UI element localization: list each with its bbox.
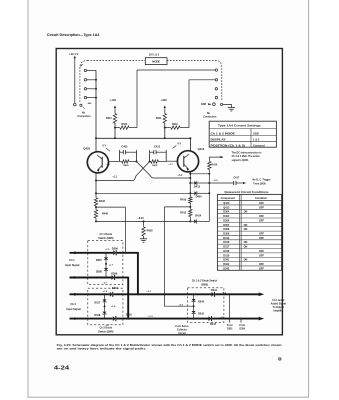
svg-text:D343: D343 — [223, 267, 230, 270]
wire cross-coupling to Q413 emitter rail — [137, 162, 191, 179]
svg-text:Centered: Centered — [253, 143, 265, 147]
transistor Q403 — [87, 152, 108, 173]
svg-text:Circuit Description—Type 1A4: Circuit Description—Type 1A4 — [47, 33, 100, 37]
svg-text:Quiescent Circuit Conditions: Quiescent Circuit Conditions — [224, 190, 268, 194]
svg-text:0 V: 0 V — [103, 145, 107, 148]
svg-text:+140: +140 — [110, 98, 117, 102]
svg-text:R440: R440 — [102, 213, 109, 216]
svg-text:OFF: OFF — [259, 219, 264, 222]
wire R410 to switch contact 2 — [188, 80, 190, 128]
switch linkage dashed (middle) — [88, 60, 146, 62]
wire drop to D359 — [240, 318, 242, 320]
resistor R412 — [150, 161, 151, 163]
node D317 top tee — [104, 293, 106, 295]
output arrow upper — [259, 293, 265, 297]
svg-text:No: No — [207, 112, 211, 115]
diode D343 — [193, 294, 195, 299]
node R442-R440 junction — [95, 206, 97, 208]
wire R414 bus vertical — [208, 170, 210, 222]
svg-text:R416: R416 — [180, 199, 187, 202]
node Ch1 upper joins Ch2 upper — [137, 293, 139, 295]
wire collector rail — [96, 137, 190, 139]
svg-text:R415: R415 — [180, 211, 187, 214]
node D343 top tee — [193, 293, 195, 295]
svg-text:−0.2: −0.2 — [213, 180, 218, 182]
wire bias drop to Ch1 diode gate — [124, 207, 126, 253]
wire Ch1 lower signal line — [70, 277, 112, 279]
svg-text:Q403: Q403 — [223, 202, 230, 205]
diode D308 — [104, 268, 108, 271]
svg-text:Input Signal: Input Signal — [66, 308, 81, 311]
svg-text:ADD: ADD — [253, 131, 259, 135]
wire emitter tie rail — [96, 192, 190, 194]
diode D342 — [192, 311, 196, 314]
switch linkage dashed (right) — [167, 61, 222, 101]
svg-text:Added Signal: Added Signal — [271, 302, 287, 305]
wire switch bus to Q403 collector — [95, 70, 97, 151]
svg-text:+12.1 V: +12.1 V — [69, 52, 79, 56]
wire right contact 2 to R410 — [189, 79, 215, 81]
svg-text:Type 1A4 Control Settings: Type 1A4 Control Settings — [218, 123, 261, 127]
svg-text:Ch 1: Ch 1 — [69, 259, 75, 262]
svg-text:OFF: OFF — [259, 267, 264, 270]
resistor R440 — [94, 210, 97, 218]
svg-text:D309: D309 — [223, 232, 230, 235]
wire wiper to ground — [223, 104, 232, 107]
svg-text:+7.3: +7.3 — [148, 316, 153, 318]
Ch1 gate dashed box — [88, 241, 123, 285]
svg-text:D341: D341 — [211, 289, 218, 292]
svg-text:D318: D318 — [223, 250, 230, 253]
svg-text:+7.5: +7.5 — [105, 249, 110, 251]
svg-text:D317: D317 — [94, 301, 101, 304]
node D343-D342 midpoint +7.5 — [193, 302, 195, 311]
svg-text:D341: D341 — [223, 259, 230, 262]
registration mark — [278, 357, 281, 360]
svg-text:From Series: From Series — [175, 326, 189, 328]
svg-text:0 V: 0 V — [178, 142, 182, 145]
transistor Q413 — [177, 151, 198, 172]
switch SW400A wiper contact — [74, 103, 77, 106]
svg-text:OFF: OFF — [259, 215, 264, 218]
schematic border frame — [56, 49, 282, 335]
wire contact leads left — [87, 69, 96, 71]
label Ch 1 Diode Switch — [94, 232, 118, 240]
svg-text:Switch (SW6): Switch (SW6) — [98, 237, 113, 240]
resistor R421 — [113, 113, 116, 123]
wire trigger takeoff to C417 — [209, 182, 233, 184]
wire Ch2 upper signal line — [70, 293, 110, 295]
wire Ch2 lower signal line — [70, 318, 113, 320]
switch SW400B wiper contact — [213, 103, 216, 106]
resistor R414 — [208, 161, 211, 169]
wire Q413 base — [166, 160, 177, 162]
wire Ch1 lower drop to Ch2 line — [127, 277, 129, 319]
node D317-D318 midpoint — [104, 302, 106, 311]
svg-text:Component: Component — [221, 196, 236, 200]
svg-text:Q413: Q413 — [223, 206, 230, 209]
wire junction rail to series collector feed — [164, 206, 190, 208]
svg-text:Ch 2: Ch 2 — [70, 303, 76, 306]
svg-text:From: From — [239, 325, 245, 327]
node -8.94 rail right junction — [189, 220, 191, 222]
svg-text:OFF: OFF — [259, 237, 264, 240]
svg-text:ON: ON — [244, 228, 248, 231]
svg-text:OFF: OFF — [259, 263, 264, 266]
svg-text:D318: D318 — [94, 314, 101, 317]
svg-text:D306: D306 — [223, 219, 230, 222]
wire R414 to Ch3and4 takeoff — [209, 157, 220, 161]
svg-text:D404: D404 — [196, 195, 203, 198]
svg-text:D413: D413 — [194, 186, 201, 189]
node -8.94 rail left junction — [95, 220, 97, 222]
svg-text:R410: R410 — [172, 123, 178, 126]
switch contacts right bank — [215, 69, 217, 71]
svg-text:Ch 1 & 2 MODE: Ch 1 & 2 MODE — [211, 131, 236, 135]
svg-text:ON: ON — [244, 259, 248, 262]
svg-text:1 & 2: 1 & 2 — [253, 137, 260, 141]
svg-text:R402: R402 — [123, 164, 129, 167]
svg-text:+300: +300 — [161, 98, 168, 102]
wire Ch1 upper signal line — [70, 252, 114, 254]
svg-text:POSITION (Ch 1 & 2): POSITION (Ch 1 & 2) — [211, 143, 246, 147]
diode D307 — [105, 253, 107, 257]
svg-text:To Output: To Output — [273, 306, 284, 309]
wire drop to D351 — [229, 293, 231, 295]
svg-text:OFF: OFF — [259, 206, 264, 209]
svg-text:Condition: Condition — [255, 196, 268, 200]
svg-text:OFF: OFF — [259, 254, 264, 257]
svg-text:MODE: MODE — [152, 60, 160, 64]
wire +300 feed — [164, 107, 166, 114]
svg-text:−0.7: −0.7 — [220, 317, 225, 319]
ground (R429) — [140, 238, 147, 240]
svg-text:D319: D319 — [223, 254, 230, 257]
svg-text:D342: D342 — [223, 263, 230, 266]
svg-text:Connection: Connection — [203, 116, 217, 119]
svg-text:Ch 1 Diode: Ch 1 Diode — [100, 233, 113, 236]
svg-text:+7.2: +7.2 — [177, 175, 182, 177]
svg-text:R414: R414 — [212, 164, 218, 167]
svg-text:R420: R420 — [121, 123, 127, 126]
wire Q413 emitter column — [189, 172, 191, 197]
node D307-D308 midpoint — [105, 260, 107, 268]
svg-text:ADD: ADD — [201, 103, 207, 106]
svg-text:OFF: OFF — [259, 202, 264, 205]
svg-text:D319: D319 — [126, 314, 133, 317]
resistor R420 — [115, 127, 120, 129]
svg-text:From: From — [227, 325, 233, 327]
svg-text:Collector: Collector — [177, 329, 187, 332]
wire cross-coupling to Q403 emitter rail — [96, 162, 150, 181]
svg-text:D304: D304 — [223, 211, 230, 214]
svg-text:ON: ON — [244, 211, 248, 214]
node R429 junction — [143, 220, 145, 222]
switch MODE box — [145, 58, 167, 65]
diode D404 — [190, 192, 194, 194]
svg-text:+1.4: +1.4 — [111, 305, 116, 308]
svg-text:DISPLAY: DISPLAY — [211, 137, 227, 141]
resistor R429 — [143, 221, 145, 226]
svg-text:ON: ON — [244, 241, 248, 244]
node R416-R415 junction — [189, 206, 191, 208]
wire bias takeoff rail to Ch1 switch — [96, 206, 125, 208]
diode D318 — [103, 312, 107, 315]
svg-text:R412: R412 — [152, 164, 158, 167]
wire -8.94 rail — [96, 220, 190, 222]
svg-text:OFF: OFF — [259, 250, 264, 253]
wire series-collector feed drop — [164, 207, 193, 306]
svg-text:Ch 1 and 2: Ch 1 and 2 — [272, 299, 285, 302]
svg-text:ON: ON — [244, 224, 248, 227]
svg-text:Q403: Q403 — [83, 147, 90, 151]
svg-text:R411: R411 — [156, 117, 162, 120]
wire +12.1V feed — [74, 57, 76, 104]
svg-text:D309: D309 — [111, 272, 118, 275]
wire Ch1 upper drop to Ch2 line — [137, 252, 139, 294]
svg-text:D414: D414 — [195, 214, 202, 217]
svg-text:Switch (SW6): Switch (SW6) — [98, 330, 113, 333]
svg-text:Amplifier: Amplifier — [273, 310, 283, 313]
svg-text:D347: D347 — [210, 323, 217, 326]
svg-text:D308: D308 — [96, 270, 103, 273]
Ch2 gate dashed box — [88, 288, 123, 325]
svg-text:C403: C403 — [121, 145, 128, 148]
svg-text:OFF: OFF — [259, 232, 264, 235]
node A junction — [114, 127, 116, 129]
svg-text:D317: D317 — [223, 246, 230, 249]
wire Q403 emitter column — [95, 173, 97, 198]
svg-text:Ch 3 & 4 Mult. The active: Ch 3 & 4 Mult. The active — [232, 155, 261, 158]
switch linkage tick — [81, 64, 83, 67]
resistor R442 — [94, 198, 97, 206]
node Ch1 lower joins Ch2 lower — [127, 318, 129, 320]
svg-text:+7.5: +7.5 — [179, 305, 184, 307]
svg-text:Circuit: Circuit — [178, 332, 186, 335]
svg-text:D343: D343 — [198, 301, 205, 304]
svg-text:R442: R442 — [99, 200, 106, 203]
wire no-connection pointer — [83, 106, 85, 109]
svg-text:Q413: Q413 — [198, 147, 205, 151]
svg-text:R429: R429 — [147, 230, 154, 233]
svg-text:D306: D306 — [112, 248, 119, 251]
node left RC pair bars — [119, 150, 121, 161]
wire R411 to node B — [164, 123, 166, 138]
svg-text:D307: D307 — [223, 224, 230, 227]
switch linkage dashed (left) — [80, 61, 88, 102]
resistor R416 — [189, 197, 192, 203]
svg-text:Connection: Connection — [77, 115, 91, 118]
node D342 bottom tee — [193, 318, 195, 320]
svg-text:R421: R421 — [106, 117, 112, 120]
ground (mode switch) — [228, 107, 235, 109]
wire Q413 to R414 bus — [190, 173, 209, 175]
output arrow lower — [259, 317, 265, 321]
svg-text:D307: D307 — [96, 259, 103, 262]
wire R420 to switch contact 1 — [136, 70, 138, 128]
svg-text:D404: D404 — [223, 215, 230, 218]
output gate dashed box — [188, 288, 224, 323]
svg-text:C417: C417 — [233, 177, 239, 180]
switch SW400A wiper no-connection contact — [80, 104, 82, 106]
svg-text:+1.3: +1.3 — [112, 177, 117, 179]
switch contacts left bank — [84, 69, 86, 71]
svg-text:From Q430: From Q430 — [253, 182, 266, 185]
wire right contact 1 to R420 — [137, 69, 215, 71]
node bus junctions left — [95, 79, 97, 81]
svg-text:Input Signal: Input Signal — [65, 264, 80, 267]
table Type 1A4 Control Settings — [209, 121, 276, 147]
svg-text:signal to Q430.: signal to Q430. — [232, 159, 249, 162]
diode D413 — [190, 182, 194, 184]
svg-text:No D. C. Trigger: No D. C. Trigger — [252, 179, 270, 182]
resistor R411 — [163, 113, 166, 123]
svg-text:D316: D316 — [112, 287, 119, 290]
wire R421 to node A — [114, 123, 116, 138]
node B junction — [164, 127, 166, 129]
svg-text:are on and heavy lines indicat: are on and heavy lines indicate the sign… — [57, 347, 147, 351]
svg-text:−8.94: −8.94 — [137, 217, 144, 220]
svg-text:D313: D313 — [223, 237, 230, 240]
svg-text:4-24: 4-24 — [54, 365, 70, 371]
resistor R410 — [165, 127, 171, 129]
resistor R415 — [189, 209, 192, 216]
svg-text:(SW8): (SW8) — [201, 283, 208, 286]
switch SW400B ground contact — [221, 103, 223, 105]
svg-text:D359: D359 — [239, 329, 245, 331]
svg-text:C413: C413 — [154, 145, 161, 148]
wire Q413 collector — [189, 138, 191, 151]
wire Q403 base — [109, 160, 120, 162]
svg-text:Ch 2 Diode: Ch 2 Diode — [100, 327, 113, 330]
svg-text:D316: D316 — [223, 241, 230, 244]
svg-text:D308: D308 — [223, 228, 230, 231]
svg-text:ON: ON — [244, 246, 248, 249]
svg-text:CH 1 & 2: CH 1 & 2 — [149, 53, 160, 56]
node D307 top tee — [105, 252, 107, 254]
svg-text:D351: D351 — [227, 329, 233, 331]
svg-text:D342: D342 — [198, 313, 205, 316]
svg-text:The DC interconnection to: The DC interconnection to — [232, 152, 262, 155]
diode D317 — [104, 294, 106, 299]
svg-text:Ch 1 & 2 Diode Switch: Ch 1 & 2 Diode Switch — [192, 280, 218, 283]
wire +140 feed — [114, 107, 116, 114]
svg-text:−0.2: −0.2 — [222, 292, 227, 294]
node Ch1 bias tee — [124, 252, 126, 254]
resistor R402 — [120, 161, 122, 163]
node right RC pair bars — [149, 150, 151, 161]
